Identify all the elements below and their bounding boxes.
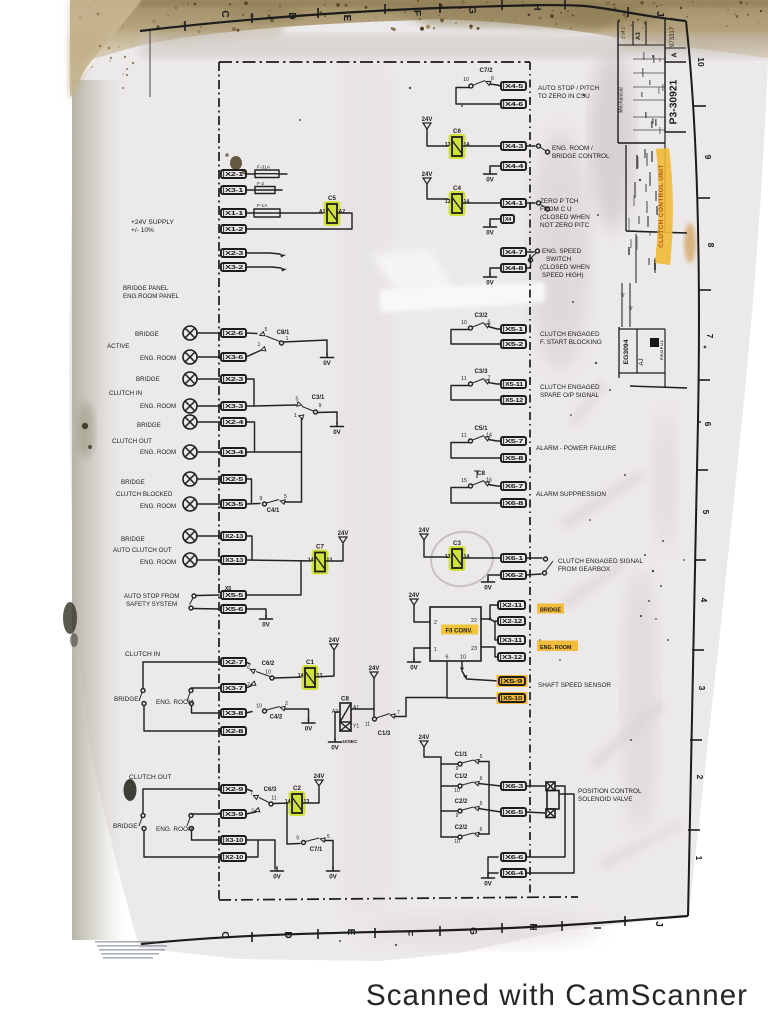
wire C7/2 common to X4-6 — [456, 88, 501, 105]
wire contact bus vertical — [301, 419, 303, 503]
wire C3/1 to ground — [318, 412, 338, 424]
svg-text:8: 8 — [706, 243, 716, 248]
svg-text:X5-10: X5-10 — [503, 696, 522, 702]
terminal X4-5 — [501, 82, 526, 90]
terminal X3-1 — [221, 186, 246, 194]
svg-text:BRIDGE: BRIDGE — [113, 823, 138, 830]
svg-text:SPARE O/P SIGNAL: SPARE O/P SIGNAL — [540, 392, 600, 399]
svg-text:24V: 24V — [419, 528, 430, 534]
svg-text:X2-3: X2-3 — [225, 251, 243, 257]
wire pin10 to X5-9 — [462, 671, 499, 681]
svg-text:X3-11: X3-11 — [502, 638, 522, 644]
svg-text:A: A — [672, 52, 679, 57]
relay coil C2 — [285, 785, 310, 816]
wire X2-5 join — [246, 479, 252, 504]
svg-text:X6-3: X6-3 — [505, 784, 523, 790]
terminal X4-8 — [501, 264, 526, 272]
wire eng speed switch to X4-8 — [527, 262, 531, 268]
svg-text:X6-8: X6-8 — [505, 501, 523, 507]
svg-text:X6-7: X6-7 — [505, 484, 523, 490]
switch C6/3 — [250, 787, 277, 815]
svg-text:SAFETY SYSTEM: SAFETY SYSTEM — [126, 601, 177, 608]
svg-text:9: 9 — [319, 403, 322, 409]
fuse F-1A — [254, 203, 280, 217]
wire X4-1 stub — [526, 202, 535, 204]
svg-text:0V: 0V — [484, 585, 492, 592]
wire X6-6 to ground — [488, 857, 498, 876]
switch C1/3 — [365, 710, 400, 737]
svg-text:0V: 0V — [273, 874, 281, 881]
wire bus to C1/2 — [441, 785, 458, 787]
svg-text:X5-2: X5-2 — [505, 342, 523, 348]
svg-text:10: 10 — [463, 77, 469, 83]
svg-text:C3/2: C3/2 — [474, 312, 488, 319]
wire X3-2 stub — [246, 267, 281, 268]
svg-text:X3-1: X3-1 — [225, 188, 243, 194]
terminal X6-7 — [501, 482, 526, 490]
wire valve to X6-6 — [527, 786, 565, 857]
svg-text:+/- 10%: +/- 10% — [131, 227, 154, 234]
svg-text:X5-5: X5-5 — [225, 593, 243, 599]
wire relay C1 to 24V — [315, 650, 334, 677]
svg-text:X4-6: X4-6 — [505, 102, 523, 108]
wire X2-9 rail — [143, 789, 221, 813]
terminal X6-6 — [501, 853, 526, 861]
wire X6-4 to ground — [488, 872, 498, 874]
svg-text:C6/3: C6/3 — [264, 787, 277, 793]
wire X4-3 stub — [526, 145, 535, 147]
svg-text:24V: 24V — [422, 117, 433, 123]
svg-text:A2: A2 — [339, 209, 346, 215]
svg-text:9: 9 — [296, 836, 299, 842]
svg-text:ACTIVE: ACTIVE — [107, 343, 129, 350]
sheet bottom border — [141, 916, 688, 944]
svg-text:CLUTCH ENGAGED SIGNAL: CLUTCH ENGAGED SIGNAL — [558, 558, 643, 565]
svg-text:ENG. SPEED: ENG. SPEED — [542, 248, 581, 255]
svg-text:CLUTCH ENGAGED: CLUTCH ENGAGED — [540, 384, 600, 391]
svg-text:CLUTCH BLOCKED: CLUTCH BLOCKED — [116, 491, 173, 498]
wire C2/2a to X6-5 — [479, 809, 502, 813]
svg-text:F: F — [411, 10, 422, 16]
terminal X5-2 — [501, 340, 526, 348]
terminal X5-10 — [497, 692, 528, 704]
svg-text:5: 5 — [327, 834, 330, 840]
svg-text:X4-4: X4-4 — [505, 164, 525, 170]
svg-text:X3-8: X3-8 — [225, 711, 243, 717]
svg-text:0V: 0V — [329, 874, 337, 881]
svg-text:7: 7 — [705, 334, 715, 339]
sheet left border remnant — [149, 29, 151, 97]
+24V supply arrow — [314, 774, 325, 786]
auto stop switch — [189, 594, 196, 610]
svg-text:F-31A: F-31A — [257, 165, 271, 171]
svg-text:A3: A3 — [636, 32, 642, 40]
svg-text:0V: 0V — [486, 280, 494, 287]
wire X5-6 to ground — [246, 609, 266, 617]
wire X2-7 rail — [143, 662, 221, 688]
svg-text:X3-7: X3-7 — [225, 686, 243, 692]
svg-text:a): a) — [628, 306, 633, 310]
terminal X3-2 — [221, 263, 246, 271]
svg-text:X2-3: X2-3 — [225, 377, 243, 383]
wire lamp to X2-13 — [197, 535, 221, 537]
terminal X3-9 — [221, 810, 246, 818]
wire lamp to X3-4 — [197, 451, 221, 453]
svg-text:X6-2: X6-2 — [505, 573, 523, 579]
wire X3-8 to C4/2 — [246, 712, 252, 714]
svg-text:ENG. ROOM: ENG. ROOM — [540, 645, 572, 651]
lamp X3-13 — [183, 553, 197, 567]
svg-text:5: 5 — [480, 801, 483, 807]
terminal X2-9 — [221, 785, 246, 793]
wire valve to X6-4 — [527, 794, 574, 873]
enclosure dashed border left — [218, 62, 220, 900]
svg-text:C4/1: C4/1 — [267, 508, 280, 514]
solenoid valve — [546, 782, 559, 818]
wire X2-6 to contact — [246, 332, 257, 335]
svg-text:5: 5 — [265, 327, 268, 333]
wire X4-7 stub — [526, 251, 534, 253]
svg-text:0V: 0V — [305, 726, 313, 733]
engroom pushbutton clutch-out — [187, 814, 194, 831]
svg-text:P3-30921: P3-30921 — [669, 79, 680, 124]
svg-text:C1/1: C1/1 — [455, 752, 468, 758]
highlight ENG. ROOM — [537, 641, 578, 652]
svg-text:X2-9: X2-9 — [225, 787, 243, 793]
svg-text:J: J — [654, 11, 665, 17]
svg-text:5: 5 — [284, 494, 287, 500]
svg-text:4: 4 — [699, 598, 709, 603]
wire relay C3 to X6-1 — [462, 557, 501, 559]
svg-text:X5-12: X5-12 — [505, 398, 523, 404]
switch C7/2 — [463, 67, 494, 88]
svg-text:5: 5 — [480, 754, 483, 760]
svg-text:9: 9 — [260, 496, 263, 502]
svg-text:X3-2: X3-2 — [225, 265, 243, 271]
terminal X2-13 — [221, 532, 246, 540]
relay coil C1 — [298, 659, 323, 690]
svg-text:C1/2: C1/2 — [455, 774, 468, 780]
svg-text:14: 14 — [464, 554, 470, 560]
svg-text:X3-3: X3-3 — [225, 404, 243, 410]
ground — [327, 867, 340, 881]
svg-text:11: 11 — [461, 376, 466, 382]
wire C3/3 common to X5-12 — [451, 386, 501, 401]
svg-text:C4: C4 — [453, 185, 461, 192]
svg-text:14: 14 — [298, 673, 304, 679]
terminal X2-12 — [498, 617, 525, 625]
wire lamp to X2-3 — [197, 378, 221, 380]
remote switch zero pitch — [526, 201, 550, 211]
svg-text:X1-2: X1-2 — [225, 227, 243, 233]
wire C8/1 to ground — [284, 340, 328, 355]
relay coil C7 — [308, 544, 333, 575]
svg-text:X3-12: X3-12 — [502, 655, 522, 661]
svg-text:NOT ZERO PITC: NOT ZERO PITC — [540, 222, 590, 229]
svg-text:AUTO CLUTCH OUT: AUTO CLUTCH OUT — [113, 547, 172, 554]
terminal X1-1 — [221, 209, 246, 217]
svg-text:BRIDGE: BRIDGE — [135, 331, 159, 338]
wire C4/2 to ground — [285, 709, 309, 721]
terminal X6-4 — [501, 869, 526, 877]
svg-text:Scanned with CamScanner: Scanned with CamScanner — [366, 979, 747, 1012]
wire X6-1 stub — [526, 557, 542, 559]
svg-text:C3/1: C3/1 — [312, 395, 325, 401]
ground — [271, 867, 284, 881]
switch C2/2 — [454, 825, 482, 845]
svg-text:SOLENOID VALVE: SOLENOID VALVE — [578, 796, 632, 803]
svg-text:C1: C1 — [306, 659, 314, 666]
wire X2-3 join — [246, 379, 254, 406]
switch C3/3 — [461, 368, 490, 386]
svg-text:X2-1: X2-1 — [225, 172, 243, 178]
switch C3/1 — [294, 395, 325, 419]
svg-text:24V: 24V — [419, 735, 430, 741]
switch C8/1 — [246, 327, 290, 357]
wire X2-7 to C6/2 — [246, 662, 250, 664]
wire bus to C1/1 — [441, 763, 458, 765]
wire rail to X3-10 — [192, 831, 222, 841]
terminal X2-5 — [221, 475, 246, 483]
sheet right border — [686, 21, 699, 916]
svg-text:C2: C2 — [293, 785, 301, 792]
wire C5/1 to X5-7 — [489, 440, 502, 442]
terminal X1-2 — [221, 225, 246, 233]
relay coil C5 — [319, 195, 345, 226]
wire C5/1 common to X5-8 — [451, 443, 501, 459]
wire bracket X2-12/X3-11 — [490, 619, 498, 640]
svg-text:ENG. ROOM: ENG. ROOM — [140, 559, 176, 566]
svg-text:(CLOSED WHEN: (CLOSED WHEN — [540, 214, 590, 221]
wire lamp to X2-5 — [197, 478, 221, 480]
terminal X2-4 — [221, 418, 246, 426]
svg-text:C7/2: C7/2 — [479, 67, 493, 74]
wire bus to C2/2 — [441, 810, 458, 812]
terminal X3-5 — [221, 500, 246, 508]
ground — [302, 719, 315, 733]
+24V supply arrow — [409, 593, 420, 605]
svg-text:ENG. ROOM: ENG. ROOM — [140, 355, 176, 362]
svg-text:24V: 24V — [369, 666, 380, 672]
svg-text:24V: 24V — [314, 774, 325, 780]
wire X3-4 to bus — [246, 451, 302, 453]
terminal X6-3 — [501, 782, 526, 790]
svg-text:EG3094: EG3094 — [623, 339, 630, 364]
lamp X3-5 — [183, 497, 197, 511]
svg-text:BRIDGE: BRIDGE — [121, 479, 145, 486]
svg-text:F: F — [403, 930, 414, 936]
gearbox switch — [543, 557, 554, 575]
switch C6/2 — [247, 661, 275, 688]
svg-text:C7/1: C7/1 — [310, 847, 323, 853]
svg-text:F/I CONV.: F/I CONV. — [445, 629, 472, 635]
wire 24V to relay C3 — [424, 540, 450, 557]
wire X3-7 rail — [191, 687, 221, 690]
svg-text:13: 13 — [445, 142, 451, 148]
lamp X3-6 — [183, 350, 197, 364]
wire 24V to relay C4 — [427, 184, 449, 199]
svg-text:BRIDGE: BRIDGE — [114, 696, 139, 703]
wire lamp to X3-13 — [197, 559, 221, 561]
svg-text:C4/2: C4/2 — [270, 715, 283, 721]
terminal X4-3 — [501, 142, 526, 150]
+24V supply arrow — [422, 172, 433, 184]
switch C1/2 — [454, 774, 482, 794]
wire X3-6 to contact — [246, 351, 261, 358]
wire X2-9 to C6/3 — [246, 789, 252, 791]
svg-text:C5: C5 — [328, 195, 336, 202]
svg-text:C: C — [219, 931, 230, 938]
svg-text:X2-13: X2-13 — [225, 534, 243, 540]
svg-text:9: 9 — [456, 766, 459, 772]
svg-text:I: I — [591, 927, 602, 930]
svg-text:2: 2 — [695, 775, 705, 780]
wire to ground — [258, 840, 275, 869]
title block frame — [617, 21, 619, 143]
fuse F-31A — [255, 165, 279, 178]
svg-text:22: 22 — [471, 618, 477, 624]
wire X6-2 to ground — [488, 575, 501, 580]
svg-text:C: C — [219, 10, 230, 17]
wire C3/2 common to X5-2 — [451, 330, 501, 345]
wire relay C6 to X4-3 — [462, 145, 501, 147]
svg-text:0V: 0V — [484, 881, 492, 888]
wire rail to X3-8 — [192, 706, 222, 714]
svg-text:ENG. ROOM: ENG. ROOM — [156, 826, 193, 833]
svg-text:SWITCH: SWITCH — [546, 256, 572, 263]
wire X2-3 stub — [246, 253, 280, 254]
svg-text:C6/2: C6/2 — [262, 661, 275, 667]
terminal X5-1 — [501, 325, 526, 333]
svg-text:CLUTCH IN: CLUTCH IN — [109, 390, 142, 397]
svg-text:11: 11 — [365, 722, 370, 728]
terminal X5-7 — [501, 437, 526, 445]
svg-text:23: 23 — [471, 646, 477, 652]
terminal X3-6 — [221, 353, 246, 361]
wire pin22 to X2-11 — [481, 605, 498, 619]
enclosure dashed border bottom — [219, 897, 578, 900]
svg-text:X4-3: X4-3 — [505, 144, 523, 150]
svg-text:1: 1 — [694, 856, 704, 861]
logo square — [650, 338, 659, 347]
faint pen circle around C3 — [426, 526, 498, 592]
wire X3-3 join — [246, 405, 254, 407]
wire X3-10/X2-10 join — [246, 840, 258, 857]
wire rail to X2-8 — [144, 706, 221, 732]
svg-text:CLUTCH CONTROL UNIT: CLUTCH CONTROL UNIT — [658, 164, 665, 248]
svg-text:X2-11: X2-11 — [502, 603, 522, 609]
svg-text:X2-12: X2-12 — [502, 619, 522, 625]
lamp X3-3 — [183, 399, 197, 413]
wire C7/2 to X4-5 — [490, 84, 501, 86]
svg-text:6: 6 — [247, 665, 250, 671]
svg-text:ENG. ROOM: ENG. ROOM — [140, 403, 176, 410]
svg-text:X3-6: X3-6 — [225, 355, 243, 361]
svg-text:ALARM - POWER FAILURE: ALARM - POWER FAILURE — [536, 445, 616, 452]
svg-text:C5/1: C5/1 — [474, 425, 488, 432]
svg-text:11: 11 — [271, 796, 276, 802]
arrowhead — [281, 268, 287, 272]
svg-text:14: 14 — [464, 199, 470, 205]
terminal X4 — [501, 215, 514, 223]
svg-text:AUTO STOP FROM: AUTO STOP FROM — [124, 593, 179, 600]
svg-text:11: 11 — [461, 433, 466, 439]
terminal X3-10 — [221, 836, 246, 844]
wire lamp to X3-3 — [197, 405, 221, 407]
wire switch to X5-6 — [193, 608, 219, 611]
ground — [331, 423, 344, 437]
svg-text:X3-5: X3-5 — [225, 502, 243, 508]
svg-text:F-2: F-2 — [257, 181, 265, 187]
svg-text:TO ZERO IN CSU: TO ZERO IN CSU — [538, 93, 590, 100]
wire C1/3 to shaft sensor line — [395, 698, 448, 717]
wire 24V down to C1/3 — [373, 678, 375, 716]
terminal X6-2 — [501, 571, 526, 579]
wire bracket stub — [495, 620, 498, 622]
switch C4/1 — [260, 494, 288, 514]
wire 24V to relay C6 — [427, 129, 449, 146]
svg-text:0V: 0V — [410, 665, 418, 672]
sheet top border — [140, 5, 686, 31]
relay coil C4 — [445, 185, 470, 216]
svg-text:X5-1: X5-1 — [505, 327, 523, 333]
wire relay C2 to 24V — [302, 787, 319, 803]
svg-text:C2/2: C2/2 — [455, 825, 468, 831]
svg-text:Mechanical: Mechanical — [619, 87, 625, 112]
+24V supply arrow — [329, 638, 340, 650]
svg-text:X5-6: X5-6 — [225, 607, 243, 613]
svg-text:ENG. ROOM /: ENG. ROOM / — [552, 145, 593, 152]
svg-text:13: 13 — [445, 554, 451, 560]
svg-text:H: H — [527, 923, 538, 930]
terminal X5-5 — [221, 591, 246, 599]
terminal X3-4 — [221, 448, 246, 456]
svg-text:6: 6 — [480, 776, 483, 782]
+24V supply arrow — [419, 735, 430, 747]
svg-text:6: 6 — [491, 76, 494, 82]
svg-text:FROM GEARBOX: FROM GEARBOX — [558, 566, 611, 573]
bridge pushbutton clutch-out — [139, 814, 146, 831]
wire pin6 to X5-10 — [447, 661, 499, 698]
remote switch eng speed — [526, 249, 540, 268]
terminal X6-1 — [501, 554, 526, 562]
svg-text:9: 9 — [703, 155, 713, 160]
wire X3-9 rail — [191, 813, 221, 815]
svg-text:F. START BLOCKING: F. START BLOCKING — [540, 339, 602, 346]
svg-text:2: 2 — [434, 620, 437, 626]
wire lamp to X2-4 — [197, 421, 221, 423]
svg-text:CLUTCH OUT: CLUTCH OUT — [129, 774, 172, 781]
svg-text:D: D — [282, 931, 293, 938]
ground — [484, 273, 497, 287]
svg-text:7: 7 — [250, 791, 253, 797]
svg-text:CLUTCH ENGAGED: CLUTCH ENGAGED — [540, 331, 600, 338]
svg-text:7: 7 — [397, 710, 400, 716]
wire C4/1 to bus — [285, 501, 302, 503]
ground — [484, 223, 497, 237]
svg-text:24V: 24V — [338, 531, 349, 537]
relay coil C6 — [445, 128, 470, 159]
svg-text:10: 10 — [461, 320, 467, 326]
wire relay C4 to X4-1 — [462, 202, 501, 204]
svg-text:24V: 24V — [422, 172, 433, 178]
switch C8 — [461, 470, 492, 488]
svg-text:C8: C8 — [341, 696, 349, 703]
wire lamp to X2-6 — [197, 332, 221, 334]
C8 actuator mark — [474, 471, 480, 478]
svg-text:BRIDGE: BRIDGE — [121, 536, 145, 543]
ground — [482, 578, 495, 592]
